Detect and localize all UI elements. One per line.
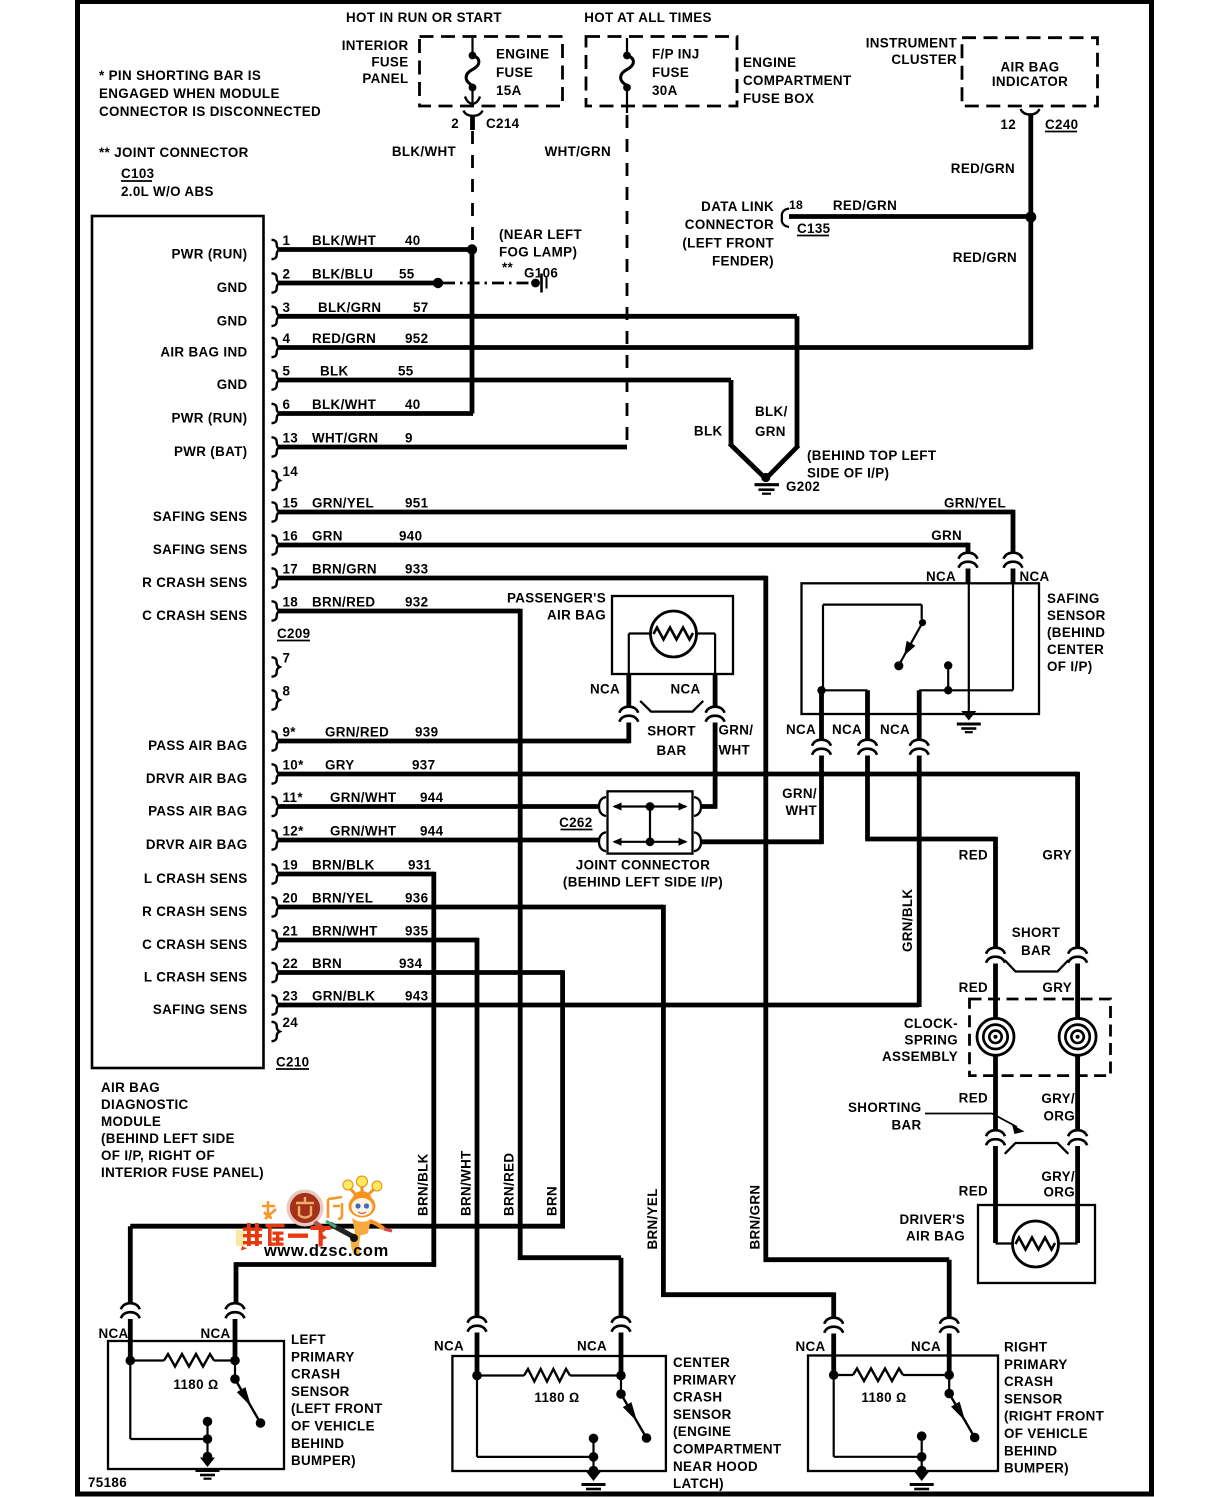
- wire RED/GRN from C240 down to node: [1028, 115, 1033, 218]
- svg-text:BLK: BLK: [694, 424, 723, 439]
- svg-text:INTERIOR FUSE PANEL): INTERIOR FUSE PANEL): [101, 1165, 264, 1180]
- node pin2 junction dot: [433, 278, 443, 288]
- svg-text:CONNECTOR: CONNECTOR: [685, 217, 774, 232]
- svg-text:FUSE: FUSE: [652, 65, 689, 80]
- svg-text:57: 57: [413, 300, 429, 315]
- wire BLK/GRN pin3 down to G202: [768, 316, 799, 476]
- svg-text:GND: GND: [217, 377, 248, 392]
- svg-text:13: 13: [283, 431, 299, 446]
- svg-text:GND: GND: [217, 280, 248, 295]
- passenger air bag leads: [626, 674, 631, 708]
- clockspring coil right (GRY): [1059, 1018, 1096, 1055]
- module pin 9* wire GRN/RED 939 (PASS AIR BAG): [148, 725, 629, 754]
- svg-text:1: 1: [283, 233, 291, 248]
- module pin 4 wire RED/GRN 952 (AIR BAG IND): [160, 331, 1030, 360]
- svg-text:16: 16: [283, 529, 299, 544]
- svg-text:ORG: ORG: [1043, 1185, 1075, 1200]
- left primary crash sensor internal circuit: leads, 1180 ohm resistor, switch, ground: [126, 1341, 266, 1461]
- wire BRN/RED pin18 down, right, to center sensor right lead: [518, 609, 621, 1318]
- svg-text:ORG: ORG: [1043, 1109, 1075, 1124]
- svg-text:BRN/GRN: BRN/GRN: [748, 1185, 763, 1250]
- svg-text:GRN/WHT: GRN/WHT: [330, 790, 397, 805]
- svg-text:SIDE OF I/P): SIDE OF I/P): [807, 466, 889, 481]
- svg-text:BLK/BLU: BLK/BLU: [312, 267, 373, 282]
- svg-text:BEHIND: BEHIND: [1004, 1443, 1057, 1458]
- wire WHT/GRN dashed from fuse box down to pin 13: [626, 106, 628, 113]
- fuse F1 ENGINE FUSE 15A: [465, 38, 549, 105]
- svg-text:BAR: BAR: [1021, 943, 1051, 958]
- module pin 11* wire GRN/WHT 944 (PASS AIR BAG): [148, 790, 599, 819]
- svg-text:MODULE: MODULE: [101, 1114, 161, 1129]
- module pin 24 (no connection): [272, 1015, 299, 1041]
- svg-text:944: 944: [420, 790, 444, 805]
- svg-text:BAR: BAR: [656, 743, 686, 758]
- svg-text:INTERIOR: INTERIOR: [342, 38, 409, 53]
- svg-text:OF VEHICLE: OF VEHICLE: [291, 1419, 375, 1434]
- connector break center primary crash sensor right lead (NCA): [612, 1317, 631, 1332]
- connector break on GRN/YEL (NCA): [1004, 553, 1023, 568]
- svg-text:15A: 15A: [496, 83, 522, 98]
- wire RED below clockspring: [993, 1055, 998, 1131]
- svg-text:NCA: NCA: [786, 722, 816, 737]
- svg-text:OF I/P): OF I/P): [1047, 659, 1093, 674]
- svg-text:932: 932: [405, 595, 428, 610]
- svg-text:22: 22: [283, 956, 299, 971]
- label left primary crash sensor: [291, 1332, 383, 1468]
- connector break on RED (shorting bar lower): [986, 1130, 1005, 1145]
- connector break on GRY (short bar upper): [1068, 948, 1087, 963]
- svg-text:937: 937: [412, 758, 435, 773]
- svg-text:BUMPER): BUMPER): [1004, 1461, 1069, 1476]
- svg-text:(BEHIND LEFT SIDE: (BEHIND LEFT SIDE: [101, 1131, 235, 1146]
- svg-text:8: 8: [283, 684, 291, 699]
- svg-text:HOT AT ALL TIMES: HOT AT ALL TIMES: [584, 10, 712, 25]
- safing sensor lead 2 RED: [865, 690, 870, 740]
- right primary crash sensor internal circuit: leads, 1180 ohm resistor, switch, ground: [829, 1356, 980, 1476]
- svg-text:GRN/RED: GRN/RED: [325, 725, 389, 740]
- svg-text:CLOCK-: CLOCK-: [904, 1016, 958, 1031]
- svg-text:933: 933: [405, 562, 428, 577]
- svg-text:21: 21: [283, 924, 299, 939]
- svg-text:NCA: NCA: [880, 722, 910, 737]
- svg-text:AIR BAG IND: AIR BAG IND: [160, 345, 247, 360]
- svg-text:CLUSTER: CLUSTER: [891, 52, 957, 67]
- svg-text:PASSENGER'S: PASSENGER'S: [507, 591, 606, 606]
- svg-text:C210: C210: [276, 1055, 309, 1070]
- svg-text:BLK/WHT: BLK/WHT: [312, 397, 377, 412]
- connector C214: [451, 111, 519, 132]
- svg-text:BRN/GRN: BRN/GRN: [312, 562, 377, 577]
- svg-text:2.0L W/O ABS: 2.0L W/O ABS: [121, 184, 214, 199]
- svg-text:10*: 10*: [283, 758, 305, 773]
- svg-text:(LEFT FRONT: (LEFT FRONT: [291, 1401, 383, 1416]
- svg-text:BLK/GRN: BLK/GRN: [318, 300, 381, 315]
- wire RED into clockspring: [993, 964, 998, 1020]
- wire dash-dot from pin2 node to ground G106: [443, 282, 530, 285]
- left primary crash sensor box: [108, 1341, 284, 1469]
- svg-text:7: 7: [283, 651, 291, 666]
- svg-text:GRN/: GRN/: [782, 786, 817, 801]
- right primary crash sensor box: [808, 1356, 998, 1472]
- svg-text:5: 5: [283, 364, 291, 379]
- center primary crash sensor internal circuit: leads, 1180 ohm resistor, switch, ground: [472, 1356, 651, 1475]
- instrument cluster dashed box: [962, 38, 1098, 106]
- label ENGINE COMPARTMENT FUSE BOX: [743, 55, 852, 106]
- interior fuse panel dashed box: [420, 37, 563, 107]
- svg-text:BLK/: BLK/: [755, 404, 788, 419]
- svg-text:C209: C209: [277, 626, 310, 641]
- module pin 20 wire BRN/YEL 936 (R CRASH SENS): [142, 891, 663, 920]
- short bar symbol (clockspring upper): [1005, 960, 1069, 971]
- note text JOINT CONNECTOR C103: [99, 145, 249, 199]
- svg-text:952: 952: [405, 331, 428, 346]
- svg-text:PRIMARY: PRIMARY: [1004, 1357, 1068, 1372]
- wire GRY pin10 corner down: [1075, 772, 1077, 777]
- svg-text:18: 18: [789, 198, 803, 212]
- svg-text:www.dzsc.com: www.dzsc.com: [263, 1242, 389, 1260]
- svg-text:SPRING: SPRING: [905, 1033, 958, 1048]
- svg-text:NCA: NCA: [926, 569, 956, 584]
- svg-text:AIR BAG: AIR BAG: [547, 608, 606, 623]
- wire GRN/WHT from passenger airbag down to joint connector: [713, 723, 718, 807]
- svg-text:951: 951: [405, 496, 429, 511]
- svg-text:GRY: GRY: [1042, 980, 1072, 995]
- ground symbol left primary crash sensor: [196, 1458, 220, 1479]
- svg-text:GND: GND: [217, 313, 248, 328]
- data link connector C135 pin 18: [682, 198, 830, 269]
- svg-text:C262: C262: [559, 815, 592, 830]
- svg-text:DRIVER'S: DRIVER'S: [899, 1212, 965, 1227]
- svg-text:GRN/: GRN/: [719, 723, 754, 738]
- svg-text:INSTRUMENT: INSTRUMENT: [866, 36, 958, 51]
- label AIR BAG INDICATOR: [992, 60, 1068, 90]
- svg-text:1180 Ω: 1180 Ω: [534, 1390, 579, 1405]
- svg-text:15: 15: [283, 496, 299, 511]
- label INTERIOR FUSE PANEL: [342, 38, 409, 86]
- wire GRN/WHT from break down and left to joint connector: [819, 756, 824, 845]
- svg-text:HOT IN RUN OR START: HOT IN RUN OR START: [346, 10, 502, 25]
- module pin 22 wire BRN 934 (L CRASH SENS): [144, 956, 563, 985]
- svg-text:BRN/WHT: BRN/WHT: [459, 1150, 474, 1216]
- connector C240 pin 12: [1000, 109, 1078, 132]
- svg-text:CONNECTOR IS DISCONNECTED: CONNECTOR IS DISCONNECTED: [99, 104, 321, 119]
- svg-text:DIAGNOSTIC: DIAGNOSTIC: [101, 1097, 189, 1112]
- svg-text:RED: RED: [959, 1091, 988, 1106]
- svg-text:GRN/YEL: GRN/YEL: [312, 496, 374, 511]
- svg-text:NCA: NCA: [434, 1339, 464, 1354]
- module pin 5 wire BLK 55 (GND): [217, 364, 731, 393]
- node RED/GRN junction: [1025, 212, 1036, 223]
- svg-text:BRN/BLK: BRN/BLK: [312, 858, 375, 873]
- connector breaks under passenger air bag: [619, 707, 638, 722]
- svg-text:BRN: BRN: [545, 1186, 560, 1216]
- svg-text:(NEAR LEFT: (NEAR LEFT: [499, 227, 583, 242]
- svg-text:20: 20: [283, 891, 299, 906]
- watermark logo www.dzsc.com: [236, 1176, 392, 1260]
- safing sensor lead 3 GRN/BLK: [917, 690, 922, 740]
- svg-text:FUSE: FUSE: [371, 55, 408, 70]
- fuse F2 F/P INJ FUSE 30A: [621, 38, 700, 106]
- svg-text:LATCH): LATCH): [673, 1476, 724, 1491]
- svg-text:1180 Ω: 1180 Ω: [173, 1377, 218, 1392]
- svg-text:COMPARTMENT: COMPARTMENT: [673, 1442, 782, 1457]
- svg-text:RIGHT: RIGHT: [1004, 1340, 1048, 1355]
- connector break on GRY/ORG (shorting bar lower): [1068, 1130, 1087, 1145]
- air bag diagnostic module connector box: [92, 216, 264, 1068]
- module pin 3 wire BLK/GRN 57 (GND): [217, 300, 797, 329]
- wire GRN/YEL corner down to safing sensor: [1011, 510, 1013, 515]
- passenger air bag box: [612, 596, 733, 674]
- svg-text:PWR (RUN): PWR (RUN): [171, 411, 247, 426]
- wire RED/GRN from C135 to node: [789, 214, 1031, 219]
- label BEHIND TOP LEFT SIDE OF I/P: [807, 448, 937, 481]
- wire BRN/YEL pin20 down, right, to right sensor left lead: [661, 905, 834, 1319]
- svg-text:DATA LINK: DATA LINK: [701, 199, 774, 214]
- svg-text:NCA: NCA: [200, 1326, 230, 1341]
- connector break right primary crash sensor right lead (NCA): [940, 1318, 959, 1333]
- svg-text:PWR (RUN): PWR (RUN): [171, 247, 247, 262]
- module pin 18 wire BRN/RED 932 (C CRASH SENS): [142, 595, 520, 624]
- svg-text:R CRASH SENS: R CRASH SENS: [142, 575, 247, 590]
- module pin 14 (no connection): [272, 464, 299, 490]
- ground symbol center primary crash sensor: [582, 1472, 606, 1493]
- svg-text:NEAR HOOD: NEAR HOOD: [673, 1459, 758, 1474]
- wire GRN/RED lead from break down to pin 9: [626, 723, 631, 744]
- svg-text:G202: G202: [786, 479, 820, 494]
- svg-text:935: 935: [405, 924, 429, 939]
- svg-text:SENSOR: SENSOR: [291, 1384, 350, 1399]
- svg-text:GRN/WHT: GRN/WHT: [330, 824, 397, 839]
- svg-text:GRY/: GRY/: [1041, 1169, 1075, 1184]
- safing sensor lead 1 GRN/WHT: [819, 690, 824, 740]
- module pin 2 wire BLK/BLU 55 (GND): [217, 267, 438, 296]
- svg-text:GRN: GRN: [755, 424, 786, 439]
- svg-text:DRVR AIR BAG: DRVR AIR BAG: [146, 771, 248, 786]
- svg-text:C CRASH SENS: C CRASH SENS: [142, 608, 247, 623]
- svg-text:L CRASH SENS: L CRASH SENS: [144, 970, 248, 985]
- wire RED from break down then right: [865, 756, 870, 840]
- svg-text:BRN/RED: BRN/RED: [502, 1153, 517, 1216]
- svg-text:GRN/BLK: GRN/BLK: [900, 889, 915, 952]
- svg-text:NCA: NCA: [577, 1339, 607, 1354]
- svg-text:BEHIND: BEHIND: [291, 1436, 344, 1451]
- connector breaks under safing sensor: [812, 740, 831, 755]
- svg-text:C135: C135: [797, 221, 831, 236]
- ground G202: [755, 473, 821, 494]
- wire GRY into clockspring: [1075, 964, 1080, 1020]
- label BLK/GRN: [755, 404, 788, 439]
- svg-text:L CRASH SENS: L CRASH SENS: [144, 871, 248, 886]
- svg-text:C103: C103: [121, 166, 154, 181]
- svg-text:939: 939: [415, 725, 438, 740]
- svg-text:OF I/P, RIGHT OF: OF I/P, RIGHT OF: [101, 1148, 215, 1163]
- svg-text:23: 23: [283, 989, 299, 1004]
- svg-text:RED/GRN: RED/GRN: [951, 161, 1015, 176]
- label SAFING SENSOR (BEHIND CENTER OF I/P): [1047, 591, 1106, 674]
- svg-text:** JOINT CONNECTOR: ** JOINT CONNECTOR: [99, 145, 249, 160]
- svg-text:LEFT: LEFT: [291, 1332, 326, 1347]
- connector break on GRN (NCA): [959, 553, 978, 568]
- node junction pin1/BLK-WHT: [467, 244, 477, 254]
- svg-text:BRN/BLK: BRN/BLK: [416, 1153, 431, 1216]
- svg-text:2: 2: [283, 267, 291, 282]
- svg-text:GRN/YEL: GRN/YEL: [944, 496, 1006, 511]
- wire BLK pin5 down to G202: [730, 380, 764, 477]
- svg-text:BLK/WHT: BLK/WHT: [312, 233, 377, 248]
- svg-text:SENSOR: SENSOR: [673, 1407, 732, 1422]
- svg-text:40: 40: [405, 233, 421, 248]
- svg-text:FUSE BOX: FUSE BOX: [743, 91, 814, 106]
- svg-text:BLK: BLK: [320, 364, 349, 379]
- connector break right primary crash sensor left lead (NCA): [824, 1318, 843, 1333]
- svg-text:GRN: GRN: [931, 528, 962, 543]
- svg-text:FENDER): FENDER): [712, 254, 774, 269]
- label SHORTING BAR with arrow: [848, 1100, 1024, 1134]
- svg-text:18: 18: [283, 595, 299, 610]
- svg-text:BRN/YEL: BRN/YEL: [645, 1188, 660, 1249]
- svg-text:NCA: NCA: [911, 1339, 941, 1354]
- svg-text:SAFING: SAFING: [1047, 591, 1100, 606]
- wire BRN/WHT pin21 down to center sensor left lead: [475, 938, 480, 1318]
- svg-text:PRIMARY: PRIMARY: [673, 1372, 737, 1387]
- svg-text:4: 4: [283, 331, 291, 346]
- svg-text:17: 17: [283, 562, 299, 577]
- label right primary crash sensor: [1004, 1340, 1105, 1476]
- svg-text:BUMPER): BUMPER): [291, 1453, 356, 1468]
- svg-text:GRN: GRN: [312, 529, 343, 544]
- svg-text:ENGINE: ENGINE: [743, 55, 796, 70]
- short bar symbol (passenger air bag): [640, 701, 703, 712]
- svg-text:SENSOR: SENSOR: [1047, 608, 1106, 623]
- svg-text:AIR BAG: AIR BAG: [906, 1229, 965, 1244]
- svg-text:BAR: BAR: [891, 1118, 921, 1133]
- label INSTRUMENT CLUSTER: [866, 36, 958, 68]
- svg-text:(BEHIND: (BEHIND: [1047, 625, 1105, 640]
- svg-text:940: 940: [399, 529, 422, 544]
- module pin 7 (no connection): [272, 651, 291, 677]
- svg-text:SHORT: SHORT: [647, 724, 696, 739]
- module pin 23 wire GRN/BLK 943 (SAFING SENS): [153, 989, 919, 1018]
- wire GRY/ORG below clockspring: [1075, 1055, 1080, 1131]
- svg-text:SHORTING: SHORTING: [848, 1100, 921, 1115]
- safing sensor box: [802, 583, 1040, 714]
- wire BRN pin22 down, left, to left sensor left lead: [130, 970, 565, 1304]
- wire GRY/ORG into driver air bag: [1075, 1146, 1080, 1243]
- svg-text:BRN/WHT: BRN/WHT: [312, 924, 378, 939]
- safing sensor internal circuit: [817, 583, 1013, 712]
- wire GRN/BLK from break down to pin 23: [917, 756, 922, 1008]
- svg-text:AIR BAG: AIR BAG: [101, 1080, 160, 1095]
- svg-text:CENTER: CENTER: [1047, 642, 1104, 657]
- svg-text:CENTER: CENTER: [673, 1355, 730, 1370]
- svg-text:RED/GRN: RED/GRN: [833, 198, 897, 213]
- svg-text:CRASH: CRASH: [1004, 1374, 1053, 1389]
- svg-text:3: 3: [283, 300, 291, 315]
- svg-text:ASSEMBLY: ASSEMBLY: [882, 1049, 958, 1064]
- svg-text:FOG LAMP): FOG LAMP): [499, 245, 577, 260]
- svg-text:WHT/GRN: WHT/GRN: [312, 431, 378, 446]
- module pin 16 wire GRN 940 (SAFING SENS): [153, 529, 968, 558]
- svg-text:9*: 9*: [283, 725, 297, 740]
- svg-text:NCA: NCA: [832, 722, 862, 737]
- svg-text:SHORT: SHORT: [1012, 925, 1061, 940]
- clockspring assembly dashed box: [970, 999, 1111, 1076]
- svg-text:CRASH: CRASH: [291, 1367, 340, 1382]
- svg-text:NCA: NCA: [1020, 569, 1050, 584]
- module pin 6 wire BLK/WHT 40 (PWR (RUN)): [171, 397, 473, 426]
- label AIR BAG DIAGNOSTIC MODULE: [101, 1080, 264, 1180]
- svg-text:PASS AIR BAG: PASS AIR BAG: [148, 804, 247, 819]
- module pin 19 wire BRN/BLK 931 (L CRASH SENS): [144, 858, 434, 887]
- svg-text:ENGINE: ENGINE: [496, 47, 549, 62]
- ground symbol right primary crash sensor: [910, 1472, 934, 1493]
- svg-text:SAFING SENS: SAFING SENS: [153, 1002, 248, 1017]
- ground G106 (near left fog lamp): [499, 227, 583, 293]
- svg-text:OF VEHICLE: OF VEHICLE: [1004, 1426, 1088, 1441]
- svg-text:* PIN SHORTING BAR IS: * PIN SHORTING BAR IS: [99, 68, 261, 83]
- svg-text:1180 Ω: 1180 Ω: [861, 1390, 906, 1405]
- svg-text:944: 944: [420, 824, 444, 839]
- svg-text:GRY/: GRY/: [1041, 1091, 1075, 1106]
- module pin 1 wire BLK/WHT 40 (PWR (RUN)): [171, 233, 472, 262]
- svg-text:F/P INJ: F/P INJ: [652, 47, 700, 62]
- svg-text:943: 943: [405, 989, 428, 1004]
- svg-text:WHT: WHT: [785, 803, 817, 818]
- svg-text:**: **: [502, 260, 514, 275]
- svg-text:2: 2: [451, 116, 459, 131]
- module pin 21 wire BRN/WHT 935 (C CRASH SENS): [142, 924, 477, 953]
- svg-text:30A: 30A: [652, 83, 678, 98]
- svg-text:C214: C214: [486, 116, 520, 131]
- svg-text:RED/GRN: RED/GRN: [953, 250, 1017, 265]
- svg-text:NCA: NCA: [670, 682, 700, 697]
- svg-text:12*: 12*: [283, 824, 305, 839]
- svg-text:BRN: BRN: [312, 956, 342, 971]
- wire BRN/BLK pin19 down, left, to left sensor right lead: [236, 872, 436, 1305]
- svg-text:(RIGHT FRONT: (RIGHT FRONT: [1004, 1409, 1105, 1424]
- svg-text:75186: 75186: [88, 1475, 127, 1490]
- svg-text:FUSE: FUSE: [496, 65, 533, 80]
- joint connector C262 box: [608, 791, 693, 853]
- wire GRN corner down to safing sensor: [966, 543, 968, 548]
- label JOINT CONNECTOR (BEHIND LEFT SIDE I/P): [563, 858, 723, 890]
- center primary crash sensor box: [452, 1356, 666, 1471]
- wire RED/GRN down to pin 4: [1028, 217, 1033, 349]
- svg-text:40: 40: [405, 397, 421, 412]
- wire RED into driver air bag: [993, 1146, 998, 1243]
- label GRN/WHT (passenger airbag lead): [719, 723, 754, 758]
- svg-text:WHT: WHT: [719, 743, 751, 758]
- svg-text:SAFING SENS: SAFING SENS: [153, 542, 248, 557]
- svg-text:19: 19: [283, 858, 299, 873]
- svg-text:934: 934: [399, 956, 423, 971]
- svg-text:PANEL: PANEL: [362, 71, 408, 86]
- svg-text:C240: C240: [1045, 117, 1078, 132]
- svg-text:GRN/BLK: GRN/BLK: [312, 989, 375, 1004]
- label CLOCK-SPRING ASSEMBLY: [882, 1016, 958, 1064]
- svg-text:12: 12: [1000, 117, 1016, 132]
- driver air bag squib: [996, 1221, 1078, 1267]
- svg-text:WHT/GRN: WHT/GRN: [545, 144, 611, 159]
- svg-text:COMPARTMENT: COMPARTMENT: [743, 73, 852, 88]
- svg-text:PASS AIR BAG: PASS AIR BAG: [148, 738, 247, 753]
- label C262: [559, 815, 592, 830]
- svg-text:CRASH: CRASH: [673, 1390, 722, 1405]
- svg-text:C CRASH SENS: C CRASH SENS: [142, 937, 247, 952]
- svg-text:11*: 11*: [283, 790, 304, 805]
- svg-text:RED: RED: [959, 1184, 988, 1199]
- svg-text:936: 936: [405, 891, 428, 906]
